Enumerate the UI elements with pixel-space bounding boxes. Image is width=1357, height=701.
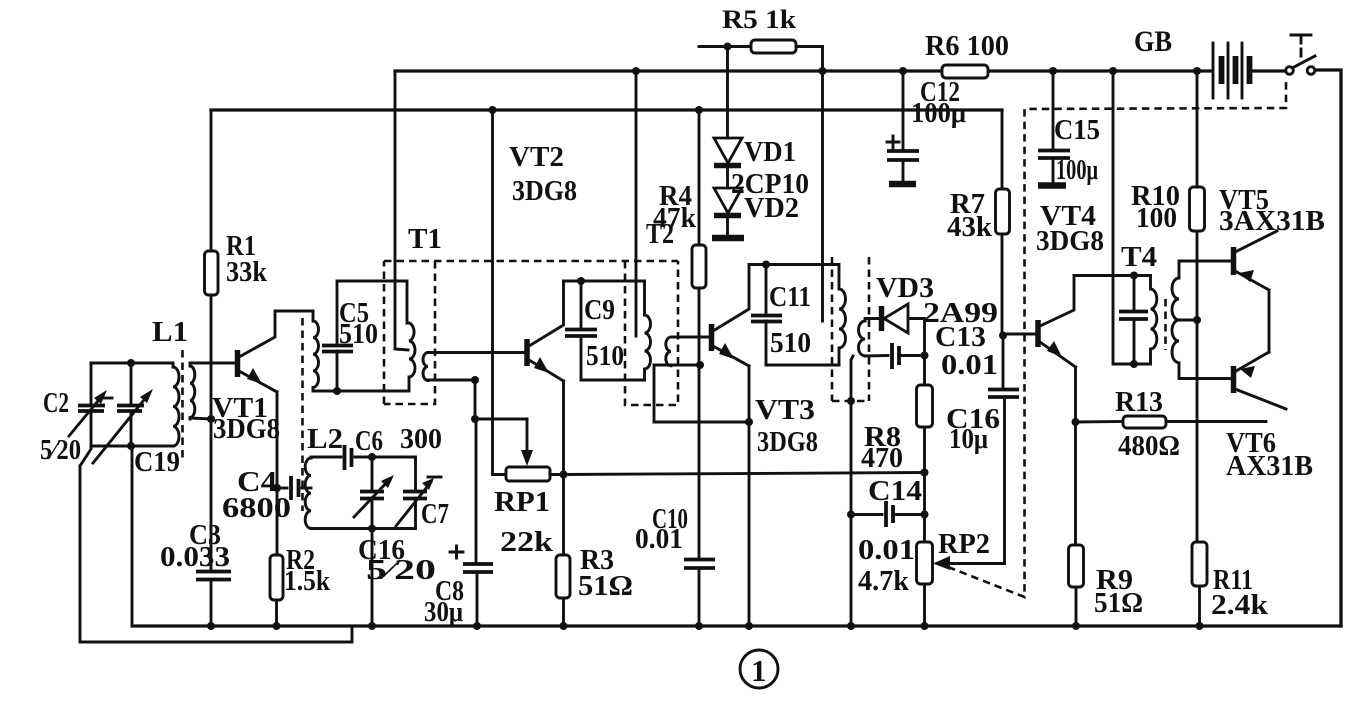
- node T3 ground rail: [847, 622, 855, 630]
- resistor R6 left wire is bus1: [942, 65, 988, 78]
- transistor VT1 emitter with arrow: [239, 371, 277, 392]
- transistor VT5 collector stub: [1235, 231, 1277, 252]
- capacitor C9 branch: [580, 281, 583, 329]
- svg-text:100: 100: [1136, 202, 1177, 234]
- wire R10 to tap and R11: [1196, 231, 1199, 542]
- node R9 ground: [1072, 622, 1080, 630]
- capacitor C13 wire: [865, 354, 888, 357]
- svg-text:RP1: RP1: [494, 486, 550, 518]
- node R3 ground: [560, 622, 568, 630]
- capacitor C5 plates: [322, 346, 353, 352]
- svg-text:3DG8: 3DG8: [757, 426, 818, 458]
- svg-text:43k: 43k: [947, 211, 993, 243]
- transistor VT3 collector: [713, 265, 749, 332]
- svg-text:5⁄20: 5⁄20: [40, 434, 81, 466]
- capacitor C11 plates: [751, 316, 782, 322]
- wire tank bottom T1/C5: [313, 390, 409, 393]
- svg-text:C15: C15: [1054, 114, 1100, 146]
- wire bus2 decoupled supply rail: [211, 108, 1002, 111]
- resistor R13 wire right: [1166, 420, 1266, 423]
- capacitor C13 wire right: [902, 354, 925, 357]
- svg-text:T1: T1: [408, 223, 442, 255]
- wire C3 to ground rail: [210, 580, 213, 627]
- node AGC line end: [921, 469, 929, 477]
- node C9 top: [577, 277, 585, 285]
- node C3 ground: [207, 622, 215, 630]
- resistor R4 line from bus2: [698, 110, 701, 245]
- transistor VT5 base bar: [1231, 247, 1237, 275]
- wire C11 tank top: [749, 263, 839, 266]
- svg-text:VD2: VD2: [744, 192, 799, 224]
- wire bus1 B+ top rail: [395, 69, 1212, 72]
- resistor R10 wire from bus1: [1196, 71, 1199, 187]
- resistor R5 left wire: [699, 45, 751, 48]
- inductor L2 lower winding: [305, 457, 311, 529]
- wire R11 ground: [1198, 586, 1201, 626]
- svg-text:VD1: VD1: [744, 136, 796, 168]
- capacitor C4 wire right: [302, 487, 311, 490]
- antenna tank loop C2/C19 top wire: [91, 362, 173, 365]
- resistor R10 body: [1190, 187, 1205, 231]
- switch actuator T: [1291, 34, 1311, 37]
- node bus1 T2 drop: [632, 67, 640, 75]
- wire T4 secondary bottom to VT6 base: [1179, 363, 1232, 379]
- transistor VT2 collector: [529, 281, 564, 346]
- svg-text:VT3: VT3: [755, 394, 815, 426]
- svg-text:R5 1k: R5 1k: [722, 5, 797, 34]
- wire VT3 emitter to ground: [748, 366, 751, 626]
- node C11 top: [762, 261, 770, 269]
- wire C9 tank top: [564, 280, 645, 283]
- wire T3 secondary bottom ground drop: [851, 356, 853, 622]
- capacitor C16osc plates: [360, 492, 384, 499]
- wire oscillator tank to ground rail: [371, 529, 374, 627]
- capacitor C2 arrow: [69, 396, 102, 436]
- diode VD3 detector: [879, 306, 885, 331]
- svg-text:10μ: 10μ: [949, 423, 988, 455]
- transformer T1 shield box: [383, 261, 386, 404]
- wire R3 to ground: [562, 598, 565, 626]
- transistor VT4 emitter with arrow: [1040, 342, 1076, 367]
- svg-text:C11: C11: [769, 281, 811, 313]
- wire RP2 to ground: [923, 584, 926, 626]
- svg-text:3DG8: 3DG8: [1036, 225, 1104, 257]
- wire R9 ground: [1075, 587, 1078, 626]
- transformer T3 shield box: [831, 257, 834, 401]
- capacitor C14 plates: [886, 501, 893, 527]
- resistor R1 body: [205, 251, 219, 295]
- svg-text:VT2: VT2: [509, 141, 564, 173]
- svg-text:30μ: 30μ: [424, 596, 463, 628]
- svg-text:GB: GB: [1134, 25, 1172, 58]
- svg-text:100μ: 100μ: [1056, 154, 1098, 186]
- svg-text:R13: R13: [1115, 386, 1163, 418]
- transistor VT4 collector: [1040, 276, 1151, 327]
- svg-text:51Ω: 51Ω: [578, 570, 633, 602]
- oscillator tank bottom wire: [311, 527, 416, 530]
- battery GB cells: [1212, 43, 1215, 98]
- capacitor C19 arrow: [93, 395, 148, 463]
- svg-text:C2: C2: [43, 387, 69, 419]
- resistor R13 body: [1123, 416, 1166, 428]
- svg-text:0.033: 0.033: [160, 541, 230, 573]
- node bus1 R10: [1193, 67, 1201, 75]
- capacitor C3 plates: [196, 572, 231, 580]
- wire C9 tank bottom: [581, 379, 645, 382]
- capacitor C11 branch: [765, 265, 768, 316]
- wire T1 supply drop with tap stub: [395, 71, 408, 350]
- transformer T1 primary winding: [407, 281, 415, 391]
- svg-text:5⁄20: 5⁄20: [366, 554, 436, 586]
- resistor R5 right wire: [796, 45, 823, 48]
- svg-text:0.01: 0.01: [858, 534, 915, 566]
- node emitter RP1 AGC: [560, 471, 568, 479]
- svg-text:1: 1: [751, 653, 767, 688]
- wire T3 supply drop to tap: [821, 47, 824, 322]
- capacitor C2 variable plates: [78, 406, 105, 412]
- capacitor C17 branch in T4 tank: [1133, 276, 1136, 312]
- inductor L1 secondary winding: [190, 363, 195, 419]
- node C13 right: [921, 352, 929, 360]
- capacitor C10 plates: [684, 560, 715, 569]
- svg-text:470: 470: [861, 442, 903, 474]
- wire T3 secondary top to VD3: [865, 319, 878, 322]
- wire R1 to C3: [210, 295, 213, 571]
- node R11 ground: [1196, 622, 1204, 630]
- node bus1 T3 drop: [819, 67, 827, 75]
- transistor VT1 collector: [239, 311, 313, 357]
- ground VD2: [726, 216, 729, 237]
- node T3 ground drop on shield: [847, 397, 855, 405]
- antenna tank loop left side with jog to ground run: [90, 363, 93, 405]
- figure number 1: [740, 650, 778, 688]
- capacitor C5 branch: [336, 281, 339, 345]
- inductor L1 primary winding: [173, 363, 179, 446]
- inductor L2 upper winding in collector path: [313, 311, 319, 391]
- svg-text:4.7k: 4.7k: [858, 565, 910, 597]
- svg-text:510: 510: [586, 340, 624, 372]
- transformer T3 primary winding: [839, 265, 846, 366]
- node center tap: [1193, 316, 1201, 324]
- capacitor C16det plates: [988, 390, 1019, 398]
- wire R7 to base node: [1001, 234, 1004, 336]
- wire ground rail bottom: [133, 624, 1341, 627]
- transformer T4 primary winding: [1151, 276, 1157, 365]
- svg-text:C14: C14: [868, 475, 922, 507]
- potentiometer RP2 body: [917, 542, 933, 584]
- transistor VT2 emitter with arrow: [529, 360, 564, 381]
- transistor VT6 base bar: [1231, 366, 1237, 393]
- T4 core: [1164, 299, 1167, 350]
- svg-text:3AX31B: 3AX31B: [1219, 205, 1325, 237]
- dashed mechanical link RP2 to switch: [948, 77, 1286, 597]
- node bus1 C15: [1049, 67, 1057, 75]
- wire VT2 emitter down to R3: [562, 381, 565, 555]
- wire node to RP1 wiper: [475, 418, 527, 421]
- svg-text:100μ: 100μ: [911, 97, 967, 129]
- capacitor C19 plates: [117, 406, 144, 412]
- node VT3 emitter ground: [745, 622, 753, 630]
- node emitter C4 branch: [273, 484, 281, 492]
- capacitor C15 drop from bus1: [1052, 71, 1055, 150]
- capacitor C16osc variable branch: [371, 457, 374, 491]
- wire R2 to ground rail: [275, 600, 278, 626]
- wire T4 secondary center tap: [1179, 319, 1197, 322]
- node R2 ground: [273, 622, 281, 630]
- wire C11 tank bottom: [766, 364, 839, 367]
- node C16osc bottom: [368, 525, 376, 533]
- node C16osc top: [368, 453, 376, 461]
- svg-text:3DG8: 3DG8: [213, 413, 280, 445]
- capacitor C15 plates: [1038, 151, 1070, 159]
- capacitor C6 plates: [345, 445, 352, 470]
- node bus2 RP1 drop: [489, 106, 497, 114]
- wire AGC line from RP1 to detector: [564, 473, 925, 475]
- node T2 secondary bottom R4: [696, 361, 704, 369]
- wire C19 branch down to ground rail: [131, 446, 134, 626]
- node bus2 R4: [695, 106, 703, 114]
- wire base node to VT4: [1003, 333, 1036, 336]
- wire T1 secondary top to VT2 base: [428, 351, 525, 354]
- transistor VT6 collector stub: [1235, 389, 1286, 409]
- capacitor C16osc arrow: [354, 480, 389, 517]
- capacitor C14 wire right: [896, 513, 925, 516]
- diode VD2: [726, 166, 729, 189]
- node C10 ground: [695, 622, 703, 630]
- node VT4 base bias: [999, 332, 1007, 340]
- svg-text:510: 510: [339, 318, 378, 350]
- node C5 bottom: [333, 387, 341, 395]
- transistor VT4 base bar: [1035, 320, 1041, 347]
- transistor VT2 base bar: [524, 339, 530, 366]
- capacitor C13 plates: [892, 343, 899, 369]
- resistor R5 body: [751, 40, 796, 53]
- svg-text:L1: L1: [152, 316, 188, 348]
- svg-text:6800: 6800: [222, 492, 291, 524]
- resistor R7 body: [996, 189, 1010, 234]
- node C19 top: [127, 359, 135, 367]
- node AGC C8: [471, 415, 479, 423]
- svg-text:47k: 47k: [653, 202, 697, 234]
- oscillator tank top wire: [311, 456, 341, 459]
- potentiometer RP2 wiper arrow and wire to C16: [933, 556, 950, 570]
- wire secondary bottom down around to VT3 emitter: [654, 365, 749, 422]
- svg-text:51Ω: 51Ω: [1094, 587, 1143, 619]
- capacitor C12 plus: [887, 136, 899, 148]
- transformer T3 secondary winding: [859, 321, 865, 356]
- svg-text:L2: L2: [307, 423, 343, 455]
- transistor VT3 base bar: [709, 324, 715, 351]
- wire C5 tank top: [337, 280, 407, 283]
- transformer T1 secondary winding: [423, 353, 428, 381]
- resistor R3 body: [556, 555, 570, 598]
- node bus1 C12: [899, 67, 907, 75]
- diode VD1: [726, 47, 729, 139]
- ground C12: [902, 160, 905, 182]
- resistor R7 wire from bus2: [1001, 110, 1004, 189]
- svg-text:RP2: RP2: [938, 528, 990, 560]
- transistor VT3 emitter with arrow: [713, 346, 749, 366]
- resistor R1 line from bus2: [210, 110, 213, 251]
- node VT4 emitter R13: [1072, 418, 1080, 426]
- wire VD3 anode to detector node: [908, 319, 925, 386]
- wire L1 secondary top to VT1 base: [190, 362, 235, 365]
- ground C15: [1052, 158, 1055, 184]
- wire T2 secondary bottom to AGC node: [654, 364, 700, 367]
- svg-text:C19: C19: [134, 446, 180, 478]
- transformer T2 primary winding: [645, 281, 651, 380]
- wire C8 to ground: [476, 572, 479, 626]
- svg-text:300: 300: [400, 423, 442, 455]
- wire ground sub-rail lower left: [80, 466, 352, 642]
- wire R4 to AGC node and C10: [698, 288, 701, 559]
- wire VT1 emitter down: [276, 392, 279, 555]
- svg-text:22k: 22k: [500, 526, 554, 558]
- svg-text:C9: C9: [584, 294, 615, 326]
- oscillator tank top wire right of C6: [355, 456, 416, 459]
- wire T2 secondary top to VT3 base: [671, 336, 710, 339]
- node VT3 emitter junction: [745, 418, 753, 426]
- resistor R9 body: [1069, 545, 1084, 587]
- node L1 bottom bias: [207, 415, 215, 423]
- resistor R11 body: [1192, 542, 1207, 586]
- svg-text:33k: 33k: [226, 256, 268, 288]
- L1 core: [181, 350, 184, 461]
- svg-text:0.01: 0.01: [635, 523, 683, 555]
- node C8 ground: [473, 622, 481, 630]
- capacitor C7 plates: [403, 492, 427, 499]
- svg-text:AX31B: AX31B: [1226, 450, 1313, 482]
- wire bus1 after switch to right edge and down: [1316, 70, 1341, 626]
- resistor R8 body: [917, 385, 933, 427]
- wire R8 to RP2: [923, 427, 926, 542]
- capacitor C12 drop from bus1: [902, 71, 905, 150]
- switch lever: [1294, 56, 1315, 67]
- wire T4 supply drop from bus1: [1113, 71, 1151, 364]
- node tank ground: [368, 622, 376, 630]
- resistor R13 wire left: [1076, 420, 1124, 423]
- svg-text:510: 510: [770, 327, 811, 359]
- capacitor C9 plates: [565, 330, 597, 337]
- node T1 secondary bottom: [471, 376, 479, 384]
- capacitor C7 arrow: [396, 482, 431, 526]
- wire secondary bottom down to C8 node: [474, 380, 477, 419]
- wire C16 top to VT4 base node: [1002, 336, 1005, 390]
- transistor VT1 base bar: [235, 350, 241, 377]
- svg-text:0.01: 0.01: [941, 349, 998, 381]
- wire T2 supply drop to tap: [635, 71, 638, 336]
- svg-text:2.4k: 2.4k: [1211, 589, 1269, 621]
- L2 core: [301, 318, 304, 511]
- transformer T4 secondary winding: [1172, 278, 1179, 363]
- potentiometer RP1 wiper arrow: [526, 419, 529, 458]
- resistor R4 body: [692, 245, 706, 288]
- transformer T2 shield box: [625, 261, 678, 405]
- switch S contacts: [1286, 67, 1294, 75]
- node T4 cap top: [1130, 272, 1138, 280]
- node RP2 ground: [921, 622, 929, 630]
- capacitor C4 wire: [277, 487, 287, 490]
- dashed top line spanning T1 to T2: [384, 260, 678, 263]
- svg-text:1.5k: 1.5k: [284, 565, 331, 597]
- svg-text:T4: T4: [1121, 241, 1157, 273]
- svg-text:C7: C7: [421, 498, 449, 530]
- wire bus2 drop to RP1 left: [493, 110, 507, 475]
- node C14 left on ground drop: [847, 511, 855, 519]
- capacitor C8 plus sign: [450, 546, 463, 558]
- node VD chain on R5 wire: [724, 43, 732, 51]
- wire L1 secondary bottom to bias node: [190, 418, 211, 419]
- svg-text:C6: C6: [355, 425, 383, 457]
- wire T4 secondary top to VT5 base: [1179, 261, 1232, 278]
- resistor R2 body: [270, 555, 283, 600]
- capacitor C4 plates: [291, 476, 299, 500]
- capacitor C12 plates: [887, 151, 919, 160]
- wire node down to C8: [475, 419, 478, 563]
- potentiometer RP1 body: [506, 467, 550, 481]
- antenna tank loop bottom wire: [91, 445, 173, 448]
- svg-text:R6 100: R6 100: [925, 30, 1009, 62]
- capacitor C19 trimmer branch: [130, 363, 133, 405]
- capacitor C8 plates: [463, 564, 493, 572]
- node T4 cap bottom: [1130, 360, 1138, 368]
- capacitor C7 variable on right leg: [414, 457, 417, 491]
- capacitor C17 plates: [1119, 312, 1148, 320]
- wire C10 to ground: [698, 568, 701, 626]
- wire RP1 right to emitter node: [550, 473, 564, 476]
- transformer T2 secondary winding: [666, 337, 671, 366]
- wire VT4 emitter down to R9: [1074, 367, 1077, 545]
- wire VT5 emitter to VT6 emitter: [1268, 290, 1271, 352]
- transistor VT5 emitter with arrow into bar: [1235, 271, 1269, 290]
- node bus1 T4 drop: [1109, 67, 1117, 75]
- svg-text:480Ω: 480Ω: [1118, 430, 1180, 462]
- node C14 right: [921, 511, 929, 519]
- node C19 bottom: [127, 442, 135, 450]
- wire T1 secondary bottom: [428, 379, 475, 382]
- svg-text:3DG8: 3DG8: [512, 175, 577, 207]
- transistor VT6 emitter with arrow into bar: [1236, 352, 1269, 371]
- wire bus1 right segment after battery to switch: [1252, 69, 1285, 72]
- capacitor C14 wire left: [851, 513, 882, 516]
